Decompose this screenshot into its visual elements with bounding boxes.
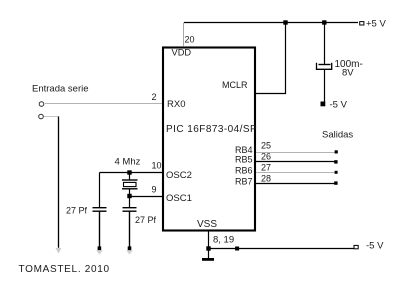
wire +5V rail to capacitor C3 [324, 23, 326, 65]
svg-text:27 Pf: 27 Pf [135, 215, 157, 225]
wire J1 pin 2 jog [44, 116, 59, 118]
wire MCLR to +5V rail [256, 23, 286, 94]
svg-text:Entrada serie: Entrada serie [32, 84, 89, 95]
terminal -5V (bottom right) [354, 245, 358, 248]
label 4 Mhz [115, 157, 141, 168]
junction on +5V rail (MCLR branch) [283, 20, 287, 24]
svg-text:OSC2: OSC2 [166, 170, 192, 181]
U1 pin 9 number [152, 185, 157, 195]
terminal -5V (below C3) [321, 102, 326, 107]
U1 label VDD [172, 48, 192, 58]
svg-text:RB7: RB7 [235, 177, 253, 187]
svg-text:VSS: VSS [197, 219, 217, 230]
wire C2 to ground [129, 211, 131, 246]
svg-text:PIC 16F873-04/SP: PIC 16F873-04/SP [166, 124, 257, 135]
svg-text:25: 25 [261, 141, 271, 151]
U1 pin 27 number [261, 163, 271, 173]
value label 27 Pf (C2) [135, 215, 157, 225]
wire OSC2 node down to C1 [99, 173, 101, 208]
wire +5V rail [184, 22, 358, 24]
capacitor C1 27 Pf [93, 208, 107, 212]
svg-text:28: 28 [261, 174, 271, 184]
terminal RB7 output [334, 181, 337, 184]
U1 pin 20 number [185, 35, 195, 45]
junction on VSS wire [235, 247, 239, 251]
U1 pin 26 number [261, 152, 271, 162]
terminal J1 pin 1 (serial input) [39, 102, 44, 107]
svg-text:-5 V: -5 V [330, 100, 348, 111]
svg-text:20: 20 [185, 35, 195, 45]
wire VSS node to ground bar [208, 249, 210, 259]
wire RB7 output [256, 183, 335, 185]
U1 label OSC2 [166, 170, 192, 181]
svg-text:OSC1: OSC1 [166, 193, 192, 204]
junction OSC1 / crystal [127, 194, 131, 198]
wire OSC2 (pin 10) [100, 172, 163, 174]
wire RB4 output [256, 152, 335, 154]
wire OSC1 (pin 9) [130, 196, 163, 198]
ground (C1) [96, 246, 103, 254]
U1 label RX0 [167, 99, 185, 110]
svg-text:RB4: RB4 [235, 145, 253, 155]
svg-text:27 Pf: 27 Pf [66, 206, 88, 216]
wire OSC1 node down to C2 [129, 196, 131, 208]
svg-text:-5 V: -5 V [366, 241, 384, 252]
ground (C2) [126, 246, 133, 254]
label -5 V (bottom right) [366, 241, 384, 252]
svg-text:8V: 8V [342, 68, 354, 79]
svg-text:+5 V: +5 V [366, 19, 386, 30]
svg-text:2: 2 [151, 92, 156, 102]
capacitor C2 27 Pf [123, 208, 137, 212]
junction VSS / ground [206, 246, 210, 250]
terminal J1 pin 2 (serial input return) [39, 114, 44, 119]
value label 100m- 8V [335, 59, 363, 79]
svg-text:RB6: RB6 [235, 166, 253, 176]
svg-text:RB5: RB5 [235, 155, 253, 165]
wire RB6 output [256, 172, 335, 174]
U1 label VSS [197, 219, 217, 230]
junction on +5V rail (C3 branch) [322, 20, 326, 24]
U1 label RB6 [235, 166, 253, 176]
svg-text:9: 9 [152, 185, 157, 195]
svg-text:10: 10 [152, 161, 162, 171]
capacitor C3 electrolytic 100m-8V [317, 63, 332, 70]
svg-text:RX0: RX0 [167, 99, 185, 110]
wire C1 to ground [99, 211, 101, 246]
U1 label RB4 [235, 145, 253, 155]
U1 pin 28 number [261, 174, 271, 184]
svg-text:TOMASTEL. 2010: TOMASTEL. 2010 [19, 264, 110, 275]
svg-text:27: 27 [261, 163, 271, 173]
svg-text:MCLR: MCLR [222, 80, 248, 90]
junction OSC2 / crystal [127, 170, 131, 174]
value label 27 Pf (C1) [66, 206, 88, 216]
terminal RB6 output [335, 171, 338, 174]
U1 pin 25 number [261, 141, 271, 151]
wire C3 to -5V terminal [324, 69, 326, 102]
ground (VSS) [202, 258, 214, 261]
U1 pins 8, 19 number [213, 235, 234, 246]
label Salidas [322, 130, 353, 141]
U1 label RB7 [235, 177, 253, 187]
label Entrada serie [32, 84, 89, 95]
wire VSS (pins 8,19) down [208, 230, 210, 249]
wire VSS node to -5V terminal [209, 248, 354, 250]
label +5 V (top right) [366, 19, 386, 30]
crystal X1 [122, 173, 138, 198]
svg-text:VDD: VDD [172, 48, 192, 58]
svg-text:Salidas: Salidas [322, 130, 353, 141]
IC U1 body PIC16F873-04/SP [163, 48, 255, 231]
svg-text:8, 19: 8, 19 [213, 235, 234, 246]
U1 pin 10 number [152, 161, 162, 171]
U1 pin 2 number [151, 92, 156, 102]
terminal RB5 output [334, 160, 337, 163]
terminal RB4 output [335, 150, 338, 153]
wire RB5 output [256, 161, 335, 163]
terminal +5V (top right) [360, 22, 364, 25]
ground (serial input return) [56, 248, 62, 254]
wire VDD pin 20 stub to +5V rail [183, 23, 185, 47]
svg-text:4 Mhz: 4 Mhz [115, 157, 141, 168]
label TOMASTEL 2010 [19, 264, 110, 275]
wire serial input to RX0 pin 2 [45, 103, 162, 105]
label -5 V (below C3) [330, 100, 348, 111]
U1 part name label [166, 124, 257, 135]
wire J1 pin 2 down to ground [58, 117, 60, 248]
U1 label OSC1 [166, 193, 192, 204]
U1 label MCLR [222, 80, 248, 90]
U1 label RB5 [235, 155, 253, 165]
